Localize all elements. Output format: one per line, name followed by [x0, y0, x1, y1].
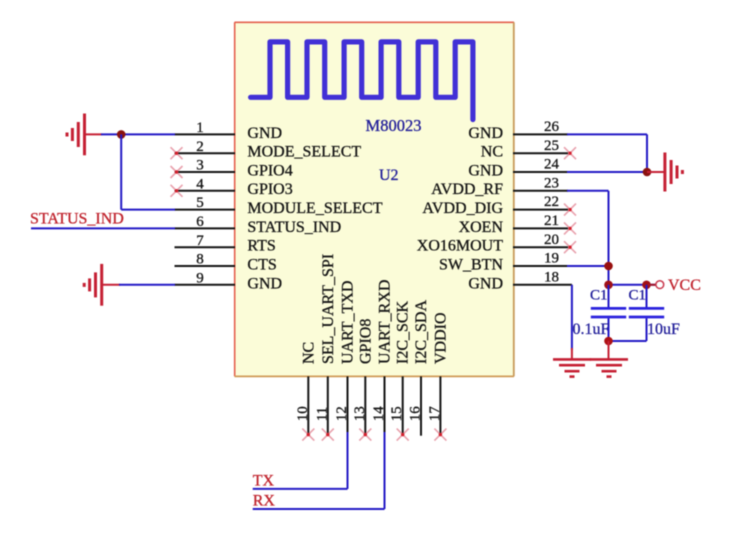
junction dot pin19	[604, 262, 613, 271]
svg-text:16: 16	[408, 406, 424, 422]
svg-text:C1: C1	[629, 288, 647, 304]
svg-text:STATUS_IND: STATUS_IND	[247, 219, 341, 236]
pin 10 stub	[307, 376, 309, 434]
svg-text:UART_TXD: UART_TXD	[340, 281, 357, 364]
junction dot cap C1a top	[604, 281, 613, 290]
ground symbol left top	[67, 114, 102, 156]
ground symbol right	[647, 153, 682, 192]
no-connect X pin 22	[564, 204, 576, 216]
svg-text:RX: RX	[253, 493, 276, 510]
pin 14 stub	[384, 376, 386, 433]
pin 21 stub	[513, 227, 568, 229]
svg-text:GND: GND	[247, 125, 282, 142]
pin 25 stub	[513, 152, 568, 154]
svg-text:23: 23	[544, 175, 559, 191]
svg-text:5: 5	[196, 195, 204, 211]
no-connect X pin 2	[171, 147, 183, 159]
svg-text:1: 1	[196, 120, 204, 136]
svg-text:MODE_SELECT: MODE_SELECT	[247, 144, 361, 161]
pin 8 stub	[175, 265, 236, 267]
svg-text:GND: GND	[468, 162, 503, 179]
svg-text:XOEN: XOEN	[459, 219, 504, 236]
pin 9 stub	[175, 284, 236, 286]
pin 3 stub	[175, 171, 236, 173]
wire pin23 to cap rail	[567, 190, 609, 192]
svg-text:NC: NC	[481, 144, 503, 161]
pin 26 stub	[513, 133, 568, 135]
svg-text:SW_BTN: SW_BTN	[439, 256, 503, 273]
svg-text:6: 6	[196, 214, 204, 230]
pin 4 stub	[175, 190, 236, 192]
pin 23 stub	[513, 190, 568, 192]
svg-text:21: 21	[544, 213, 559, 229]
pin 15 stub	[402, 376, 404, 434]
pin 22 stub	[513, 209, 568, 211]
wire pin1 to ground	[101, 133, 175, 135]
svg-text:25: 25	[544, 138, 559, 154]
wire pin18 down	[571, 285, 573, 359]
svg-text:AVDD_DIG: AVDD_DIG	[422, 200, 503, 217]
pin 18 stub	[513, 284, 572, 286]
svg-text:11: 11	[314, 407, 330, 421]
IC U2 body	[235, 22, 515, 376]
pin 13 stub	[364, 376, 366, 434]
svg-text:VDDIO: VDDIO	[432, 312, 449, 364]
svg-text:UART_RXD: UART_RXD	[377, 280, 394, 364]
svg-text:0.1uF: 0.1uF	[573, 321, 610, 338]
svg-text:19: 19	[544, 251, 559, 267]
wire cap rail down to ground	[608, 341, 610, 359]
svg-text:NC: NC	[300, 342, 317, 364]
pin 5 stub	[175, 209, 236, 211]
svg-text:2: 2	[196, 139, 204, 155]
no-connect X pin 13	[359, 429, 371, 441]
wire cap bottom rail	[609, 340, 647, 342]
svg-text:15: 15	[389, 406, 405, 421]
ground symbol left bottom	[84, 264, 120, 306]
svg-text:STATUS_IND: STATUS_IND	[30, 210, 124, 227]
no-connect X pin 10	[302, 429, 314, 441]
pin 7 stub	[175, 246, 236, 248]
svg-text:18: 18	[544, 269, 559, 285]
svg-text:M80023: M80023	[366, 116, 422, 135]
pin 20 stub	[513, 246, 568, 248]
no-connect X pin 21	[564, 222, 576, 234]
svg-text:RTS: RTS	[247, 238, 275, 255]
junction dot pin24	[643, 168, 652, 177]
wire RX horizontal	[253, 508, 385, 510]
ground symbol bottom right (earth)	[590, 359, 628, 376]
capacitor C1a 0.1uF	[591, 285, 626, 341]
capacitor C1b 10uF	[629, 285, 664, 341]
wire RX vertical from pin14	[384, 432, 386, 509]
svg-text:20: 20	[544, 232, 559, 248]
wire TX horizontal	[253, 488, 348, 490]
svg-text:CTS: CTS	[247, 256, 276, 273]
svg-text:GND: GND	[247, 276, 282, 293]
svg-text:SEL_UART_SPI: SEL_UART_SPI	[320, 254, 337, 364]
svg-text:10uF: 10uF	[647, 321, 680, 338]
svg-text:10: 10	[295, 406, 311, 421]
junction dot cap bottom	[604, 337, 613, 346]
svg-text:24: 24	[544, 157, 560, 173]
svg-text:GND: GND	[468, 276, 503, 293]
svg-text:C1: C1	[590, 288, 608, 304]
svg-text:I2C_SDA: I2C_SDA	[413, 300, 430, 364]
pin 12 stub	[347, 376, 349, 433]
svg-text:AVDD_RF: AVDD_RF	[431, 181, 503, 198]
svg-text:I2C_SCK: I2C_SCK	[395, 300, 412, 364]
wire VCC rail	[609, 284, 657, 286]
wire TX vertical from pin12	[347, 432, 349, 489]
svg-text:12: 12	[334, 406, 350, 421]
no-connect X pin 4	[171, 185, 183, 197]
svg-text:9: 9	[196, 270, 204, 286]
wire to pin 5	[121, 209, 175, 211]
pin 24 stub	[513, 171, 568, 173]
wire pin19 to junction	[567, 265, 609, 267]
svg-text:4: 4	[196, 176, 204, 192]
wire STATUS_IND to pin 6	[31, 227, 175, 229]
svg-text:13: 13	[352, 406, 368, 421]
junction dot cap C1b top	[642, 281, 651, 290]
svg-text:VCC: VCC	[668, 277, 701, 294]
antenna meander	[251, 42, 473, 120]
no-connect X pin 20	[564, 241, 576, 253]
svg-text:U2: U2	[379, 167, 399, 184]
wire vertical pin26 down to pin24 row	[646, 134, 648, 172]
ground symbol bottom left (earth)	[553, 359, 591, 376]
no-connect X pin 3	[171, 166, 183, 178]
svg-text:GND: GND	[468, 125, 503, 142]
svg-text:XO16MOUT: XO16MOUT	[417, 238, 503, 255]
VCC open circle	[656, 281, 664, 289]
wire vertical junction to pin5 row	[120, 134, 122, 209]
pin 19 stub	[513, 265, 568, 267]
wire vertical pin23 down to VCC rail	[608, 191, 610, 285]
svg-text:22: 22	[544, 194, 559, 210]
pin 11 stub	[327, 376, 329, 434]
pin 6 stub	[175, 227, 236, 229]
svg-text:17: 17	[427, 406, 443, 422]
pin 1 stub	[175, 133, 236, 135]
no-connect X pin 25	[564, 147, 576, 159]
wire pin9 to ground	[119, 284, 175, 286]
svg-text:7: 7	[196, 233, 204, 249]
svg-text:GPIO8: GPIO8	[357, 319, 374, 364]
no-connect X pin 17	[434, 429, 446, 441]
svg-text:8: 8	[196, 252, 204, 268]
wire pin26 to right ground net	[567, 133, 647, 135]
svg-text:MODULE_SELECT: MODULE_SELECT	[247, 200, 382, 217]
junction dot pin1	[117, 130, 126, 139]
svg-text:3: 3	[196, 158, 204, 174]
no-connect X pin 11	[322, 429, 334, 441]
svg-text:26: 26	[544, 119, 560, 135]
svg-text:14: 14	[371, 406, 387, 422]
svg-text:TX: TX	[253, 473, 275, 490]
no-connect X pin 15	[397, 429, 409, 441]
pin 17 stub	[439, 376, 441, 434]
pin 2 stub	[175, 152, 236, 154]
svg-text:GPIO3: GPIO3	[247, 181, 292, 198]
wire pin24 to junction	[567, 171, 647, 173]
wire stub to VCC circle	[648, 284, 656, 286]
pin 16 stub	[420, 376, 422, 435]
svg-text:GPIO4: GPIO4	[247, 162, 292, 179]
